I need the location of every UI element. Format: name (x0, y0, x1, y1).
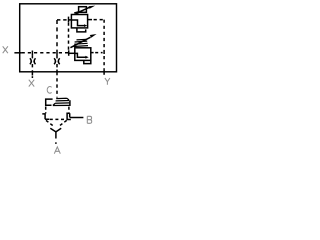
wire corner to pilot valves (dashed) (57, 19, 69, 21)
main valve spring end bar (69, 100, 71, 106)
valve 2 internal flow path (75, 53, 86, 57)
wire orifice2 down (dashed) (56, 64, 58, 70)
port A label (54, 147, 60, 154)
pilot drain line Y (dashed vertical) (103, 20, 105, 50)
wire valve2 drain dashes to Y (95, 52, 102, 54)
valve 1 drain step (77, 28, 86, 32)
wire valve1 outlet to Y line (dashed) (94, 19, 105, 21)
wire spring to seat (dashed right) (68, 107, 70, 113)
node junction tick 1 (31, 51, 33, 56)
port X label (left) (3, 46, 8, 53)
node junction tick on valve 1 inlet (68, 17, 70, 23)
port A stem (55, 132, 57, 139)
main valve: pilot piston bracket (46, 99, 53, 105)
port B label (87, 116, 91, 123)
valve 2 spring adjustment arrow (70, 34, 96, 48)
housing box (20, 4, 117, 72)
poppet V (50, 128, 61, 132)
proportional solenoid U1 (79, 7, 87, 13)
wire into valve 2 (69, 52, 75, 54)
node junction tick on Y line (103, 50, 105, 54)
wire into valve 1 (69, 19, 72, 21)
node tick crossing housing bottom (X) (31, 71, 33, 76)
node tick crossing housing bottom (Y) (103, 70, 105, 75)
wire bracket to seat (dashed left) (45, 107, 47, 114)
valve 1 internal flow path (71, 20, 84, 26)
wire valve1 inlet to valve2 inlet (dashed vertical) (68, 23, 70, 51)
orifice 1 (30, 55, 36, 64)
port X label (below housing) (29, 80, 34, 87)
wire valve2 outlet to Y line (dashed) (91, 52, 94, 54)
seat dashed crossbar (50, 118, 66, 120)
valve 1 internal arrowhead (84, 24, 87, 27)
main valve spring (53, 98, 70, 105)
pilot relief valve 1 (proportional) body (71, 15, 87, 28)
main valve seat right (67, 113, 71, 120)
orifice 2 (54, 56, 60, 65)
poppet dashed cone right (59, 120, 67, 126)
port C label (47, 87, 51, 94)
port Y label (105, 78, 110, 85)
node junction tick 2 (56, 50, 58, 56)
pilot relief valve 2 body (75, 48, 91, 61)
valve 1 outlet wire (88, 19, 92, 21)
pilot supply branch (dashed vertical x=57) (56, 20, 58, 50)
node junction tick on valve 2 inlet (68, 50, 70, 56)
wire dash to X label (31, 76, 33, 78)
main valve seat left (42, 114, 49, 119)
port A dash (55, 142, 57, 144)
pilot relief valve 2 spring (74, 39, 88, 46)
port X stub at housing edge (14, 52, 21, 54)
solenoid arrow (76, 6, 96, 14)
pilot line X (dashed horizontal) (22, 52, 69, 54)
valve 1 spring (mini) (74, 12, 79, 15)
valve 2 drain loop (84, 60, 91, 63)
wire orifice1 to housing bottom (dashed) (31, 64, 33, 71)
valve 2 internal arrowhead (85, 56, 88, 59)
node tick crossing housing bottom (C line) (56, 70, 58, 76)
pilot line C (dashed vertical to main valve) (56, 78, 58, 97)
Y line continues (dashed) (103, 56, 105, 70)
poppet dashed cone left (46, 120, 54, 126)
port B wire (70, 117, 84, 119)
